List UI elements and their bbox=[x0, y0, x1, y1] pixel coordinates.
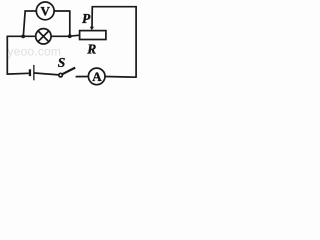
svg-text:R: R bbox=[86, 42, 96, 57]
svg-text:V: V bbox=[41, 3, 51, 18]
svg-text:S: S bbox=[58, 55, 66, 70]
svg-text:A: A bbox=[92, 69, 102, 84]
svg-text:P: P bbox=[82, 11, 91, 26]
svg-text:yeoo.com: yeoo.com bbox=[8, 45, 62, 59]
